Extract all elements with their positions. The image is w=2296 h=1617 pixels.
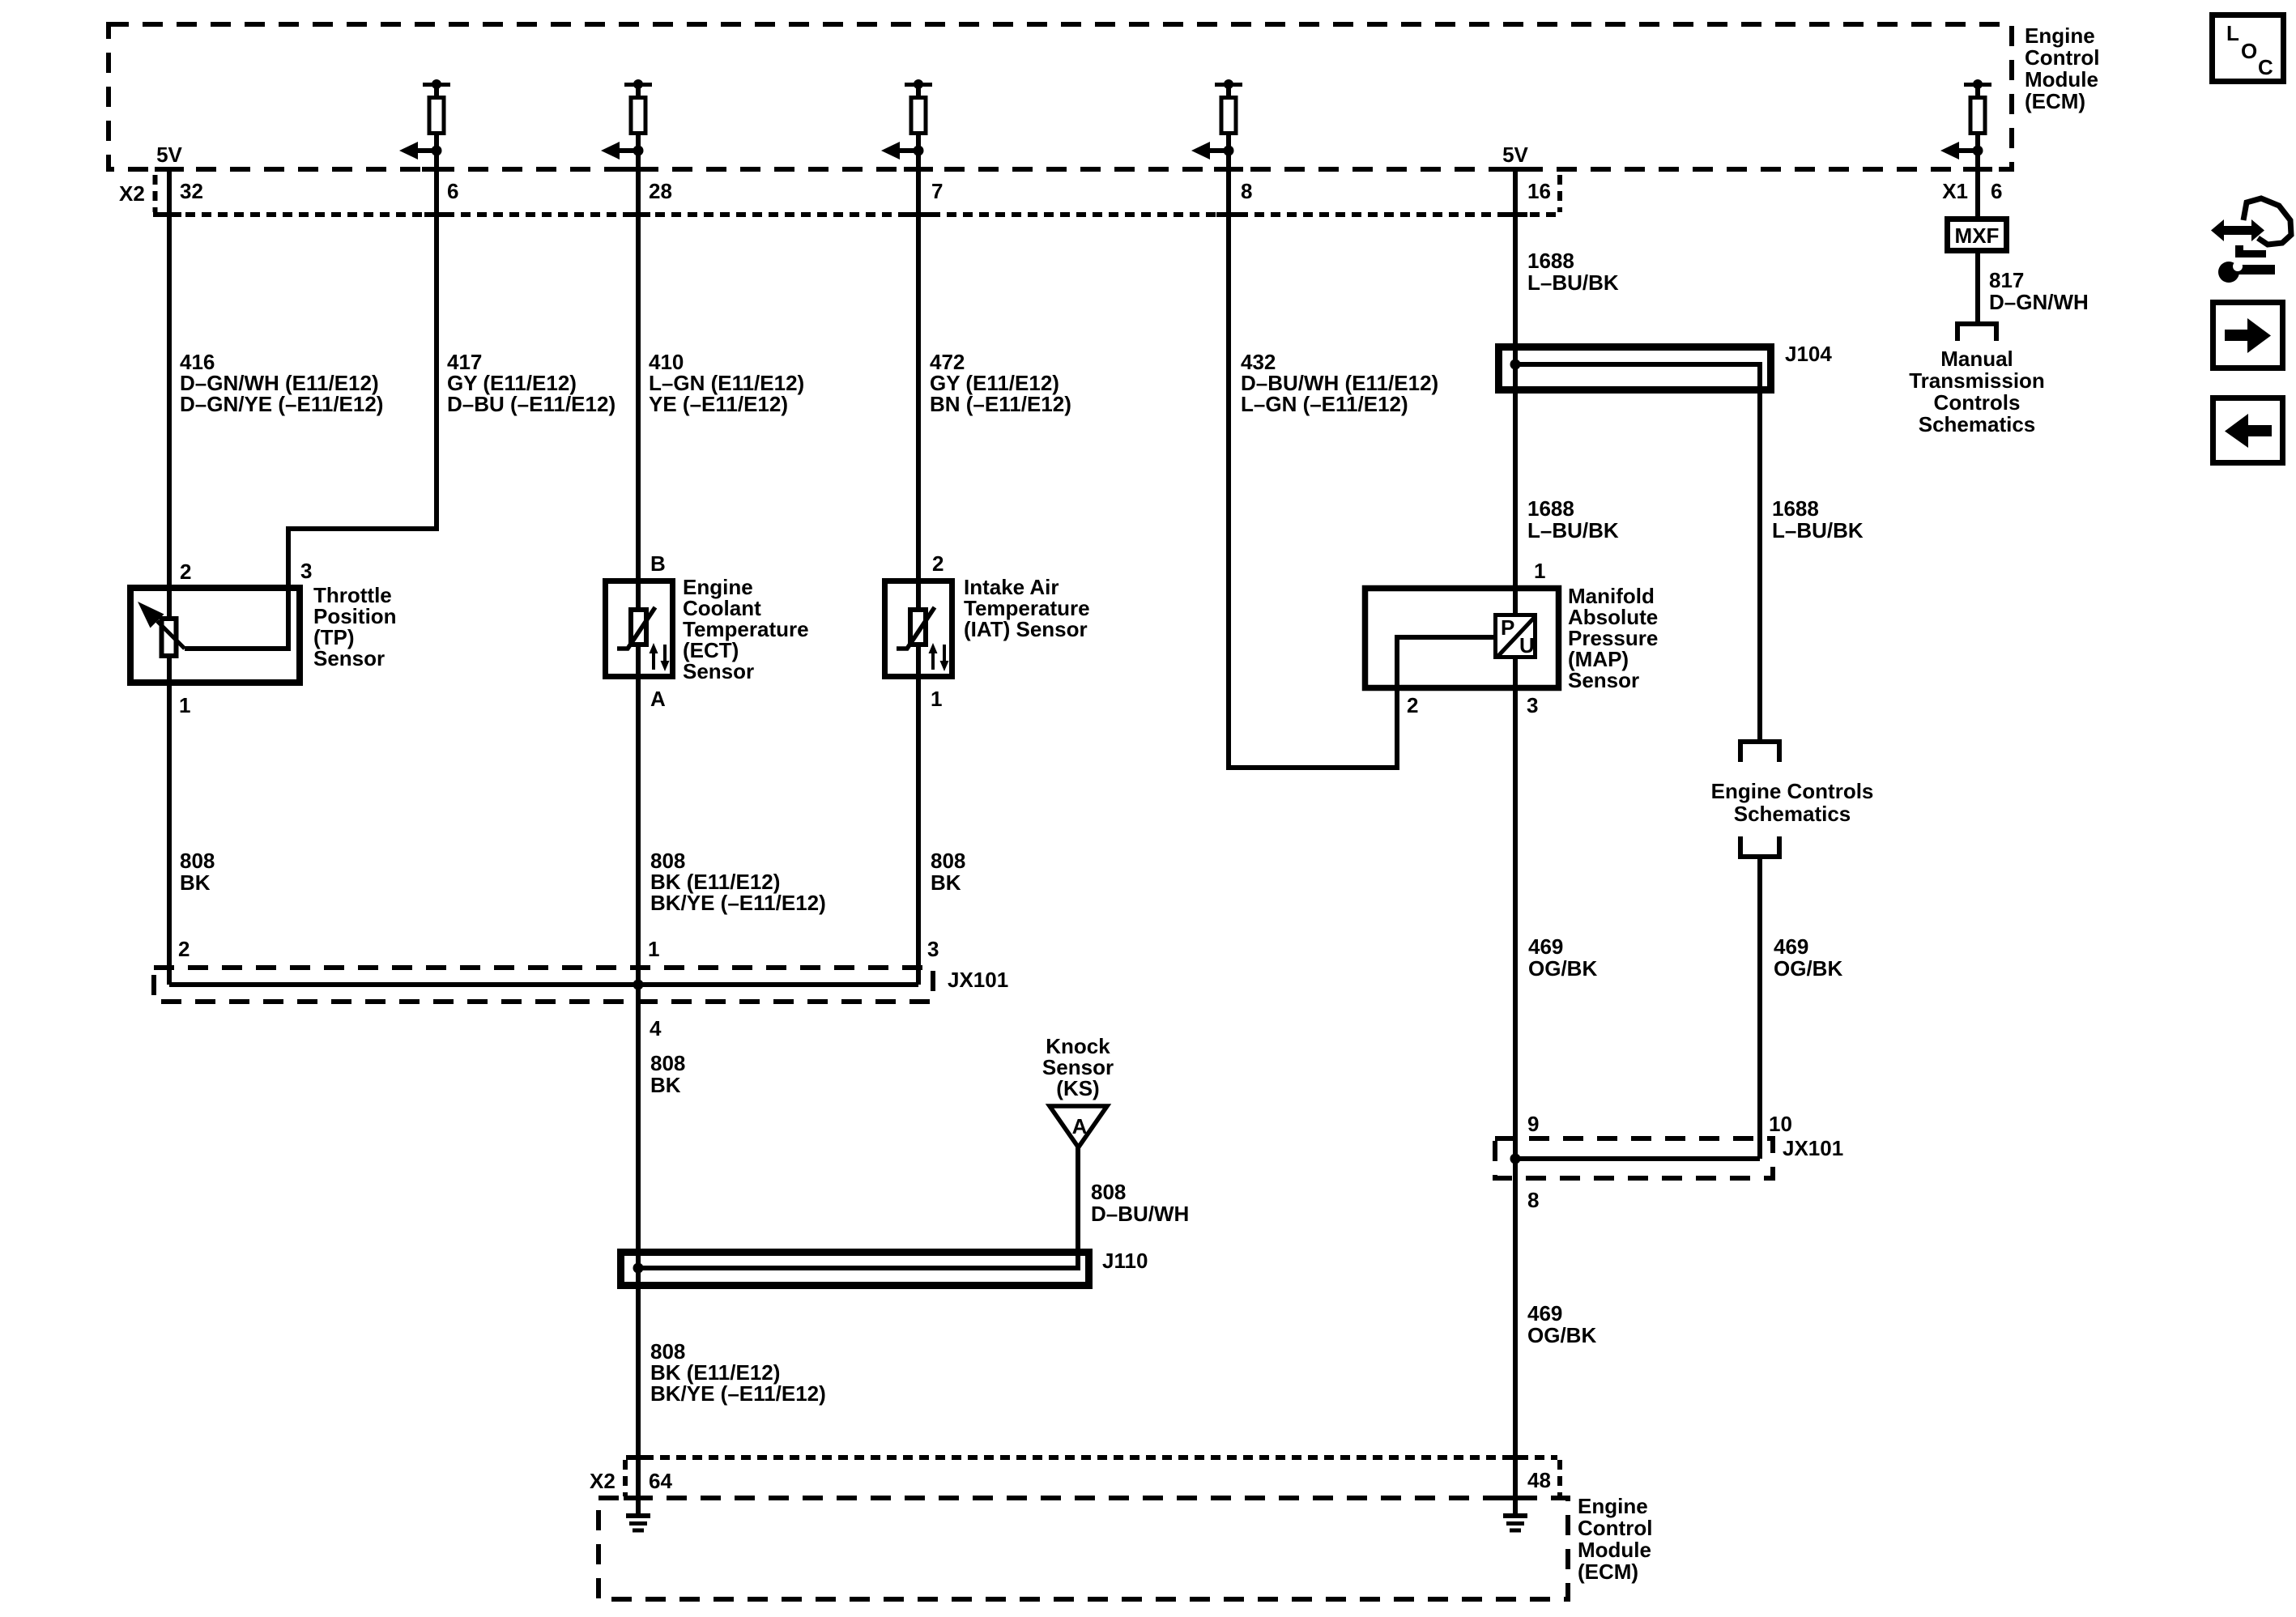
svg-text:D–BU (–E11/E12): D–BU (–E11/E12) (447, 392, 616, 416)
svg-text:X2: X2 (590, 1469, 616, 1493)
wire 808 label (ECT) (650, 849, 826, 915)
5V label pin 16 (1502, 143, 1528, 167)
svg-text:3: 3 (927, 937, 939, 961)
svg-text:8: 8 (1241, 179, 1252, 203)
svg-text:BK: BK (180, 870, 211, 895)
wire 410 label (649, 350, 804, 416)
svg-text:Schematics: Schematics (1919, 412, 2036, 436)
pull-up resistor pin 6 (429, 98, 444, 134)
svg-text:2: 2 (180, 560, 191, 584)
pin 6 label (447, 179, 458, 203)
Manual Transmission Controls Schematics label (1909, 347, 2045, 436)
wire 432 (pin 8 to MAP sensor pin 2) (1229, 135, 1496, 768)
IAT arrows (929, 643, 949, 671)
svg-text:6: 6 (1991, 179, 2002, 203)
wire 469 label (off-page drop) (1774, 934, 1842, 981)
5V supply tap pin 28 (624, 79, 652, 97)
MAP P/U transducer (1496, 615, 1536, 658)
svg-text:1: 1 (1534, 559, 1545, 583)
ECT pin B label (650, 551, 666, 576)
wire 808 label (bottom) (650, 1339, 826, 1406)
JX101 label (right) (1783, 1136, 1843, 1160)
ECT arrows (650, 643, 670, 671)
ECM label (top right) (2025, 23, 2099, 113)
X1 pin 6 label (1991, 179, 2002, 203)
JX101 pin 2 label (178, 937, 190, 961)
pin 8 label (1241, 179, 1252, 203)
wire 808 label (TP) (180, 849, 215, 895)
wire 469 label (MAP pin 3) (1528, 934, 1597, 981)
IAT pin 2 label (932, 551, 944, 576)
svg-text:BN (–E11/E12): BN (–E11/E12) (930, 392, 1071, 416)
svg-text:Sensor: Sensor (1568, 668, 1639, 692)
svg-text:1688: 1688 (1772, 496, 1819, 521)
svg-text:9: 9 (1527, 1112, 1539, 1136)
svg-text:L–BU/BK: L–BU/BK (1527, 270, 1619, 295)
pin 48 label (1527, 1468, 1551, 1492)
TP wiper arrow (138, 602, 185, 649)
junction dot J104 (1510, 360, 1521, 370)
wire 817 (X1 pin 6 through MXF fuse) (1975, 135, 1980, 321)
pin 64 label (649, 1469, 672, 1493)
svg-text:16: 16 (1527, 179, 1551, 203)
wire 1688 label (upper) (1527, 249, 1619, 295)
Engine Coolant Temperature sensor box (606, 581, 673, 677)
Knock Sensor triangle (1050, 1106, 1107, 1147)
svg-text:U: U (1519, 633, 1535, 657)
junction dot pin 28 (633, 146, 644, 156)
wire 469 (off-page to JX101 pin 10) (1757, 857, 1762, 1159)
svg-text:L–BU/BK: L–BU/BK (1772, 518, 1864, 543)
wire 1688 label (left lower) (1527, 496, 1619, 543)
svg-text:Transmission: Transmission (1909, 368, 2045, 393)
junction dot pin 8 (1224, 146, 1234, 156)
svg-text:3: 3 (1527, 693, 1538, 717)
svg-text:817: 817 (1989, 268, 2024, 292)
svg-text:7: 7 (931, 179, 943, 203)
svg-text:4: 4 (650, 1016, 662, 1040)
svg-text:469: 469 (1528, 934, 1563, 959)
svg-text:A: A (1072, 1114, 1088, 1138)
LOC reference box (2213, 15, 2284, 82)
splice pack JX101 dashed box (right) (1495, 1138, 1773, 1178)
JX101 right bus wire (1515, 1156, 1760, 1161)
svg-text:OG/BK: OG/BK (1527, 1323, 1596, 1347)
svg-text:2: 2 (1407, 693, 1418, 717)
svg-text:OG/BK: OG/BK (1774, 956, 1842, 981)
splice J110 box (621, 1253, 1089, 1286)
svg-text:808: 808 (650, 1051, 685, 1075)
svg-text:3: 3 (300, 559, 312, 583)
ground (pin 64) (626, 1516, 650, 1530)
TP sensor name (313, 583, 397, 670)
fuse MXF box (1948, 219, 2007, 251)
ECM box edge ticks at wire crossings (155, 167, 1992, 172)
svg-text:Engine: Engine (2025, 23, 2095, 48)
JX101 pin 4 label (650, 1016, 662, 1040)
JX101 label (left) (948, 968, 1008, 992)
svg-text:1: 1 (931, 687, 942, 711)
ECT sensor name (683, 575, 809, 683)
J110 label (1102, 1249, 1148, 1273)
X1 connector label (1942, 179, 1968, 203)
svg-text:32: 32 (180, 179, 203, 203)
pin 16 label (1527, 179, 1551, 203)
svg-text:X1: X1 (1942, 179, 1968, 203)
TP pin 1 label (179, 693, 190, 717)
5V label pin 32 (156, 143, 182, 167)
pull-up resistor pin 28 (631, 98, 645, 134)
svg-text:10: 10 (1769, 1112, 1792, 1136)
svg-text:1: 1 (179, 693, 190, 717)
wire 410 (pin 28 to ECT sensor, then 808 to JX101) (636, 135, 641, 985)
back arrow icon (2213, 398, 2283, 463)
svg-text:JX101: JX101 (1783, 1136, 1843, 1160)
junction dot J110 (633, 1263, 644, 1274)
wire 417 label (447, 350, 616, 416)
J104 label (1785, 342, 1832, 366)
bottom connector ticks (626, 1455, 1527, 1460)
junction dot JX101 right (1510, 1154, 1521, 1164)
X2 label (bottom) (590, 1469, 616, 1493)
junction dot X1 pin 6 (1973, 146, 1983, 156)
ECM module dashed box (top) (109, 24, 2012, 169)
svg-text:(IAT) Sensor: (IAT) Sensor (964, 617, 1088, 641)
junction dot pin 6 (432, 146, 442, 156)
MAP sensor name (1568, 584, 1658, 692)
svg-text:BK/YE (–E11/E12): BK/YE (–E11/E12) (650, 1381, 826, 1406)
wire 808 (JX101 pin 4 to ECM pin 64) (636, 985, 641, 1516)
MAP pin 3 label (1527, 693, 1538, 717)
service info icon (arrows and wrench) (2211, 198, 2291, 283)
svg-text:BK/YE (–E11/E12): BK/YE (–E11/E12) (650, 891, 826, 915)
ECT pin A label (650, 687, 666, 711)
pin 28 label (649, 179, 672, 203)
svg-text:C: C (2258, 55, 2273, 79)
ECM bottom connector X2 dotted line (625, 1457, 1560, 1496)
IAT thermistor (897, 607, 935, 649)
svg-text:L–BU/BK: L–BU/BK (1527, 518, 1619, 543)
svg-text:2: 2 (932, 551, 944, 576)
pull-up resistor pin 8 (1221, 98, 1236, 134)
wire 808 D-BU/WH label (1091, 1180, 1189, 1226)
JX101 pin 10 label (1769, 1112, 1792, 1136)
svg-text:Module: Module (2025, 67, 2098, 91)
IAT pin 1 label (931, 687, 942, 711)
pull-up resistor pin 7 (911, 98, 926, 134)
ECM connector X2 dotted line (153, 175, 1560, 215)
svg-text:1688: 1688 (1527, 496, 1574, 521)
MAP pin 2 label (1407, 693, 1418, 717)
5V supply tap pin 8 (1215, 79, 1242, 97)
IAT sensor name (964, 575, 1090, 641)
JX101 pin 8 label (1527, 1188, 1539, 1212)
svg-text:Module: Module (1578, 1538, 1651, 1562)
svg-text:6: 6 (447, 179, 458, 203)
svg-text:808: 808 (180, 849, 215, 873)
TP potentiometer resistor (162, 619, 177, 656)
svg-text:X2: X2 (119, 181, 145, 206)
svg-text:(ECM): (ECM) (1578, 1560, 1638, 1584)
svg-text:OG/BK: OG/BK (1528, 956, 1597, 981)
svg-text:(ECM): (ECM) (2025, 89, 2085, 113)
wire inside J104 to right drop (1515, 364, 1760, 739)
svg-text:808: 808 (931, 849, 965, 873)
splice J104 box (1499, 347, 1771, 390)
wire 817 label (1989, 268, 2089, 314)
svg-text:D–BU/WH: D–BU/WH (1091, 1202, 1189, 1226)
JX101 pin 1 label (648, 937, 659, 961)
junction dot JX101 (633, 980, 644, 990)
wire inside J110 (638, 1266, 1080, 1270)
JX101 pin 3 label (927, 937, 939, 961)
svg-text:64: 64 (649, 1469, 672, 1493)
wire 1688 label (right lower) (1772, 496, 1864, 543)
svg-text:2: 2 (178, 937, 190, 961)
wire 469 (JX101 pin 8 to ECM pin 48) (1513, 1159, 1518, 1516)
svg-text:Sensor: Sensor (683, 659, 754, 683)
wire 417 (pin 6 to TP sensor pin 3) (185, 135, 437, 649)
svg-text:Control: Control (2025, 45, 2099, 70)
ground (pin 48) (1503, 1516, 1527, 1530)
svg-text:O: O (2241, 39, 2257, 63)
wire 472 label (930, 350, 1071, 416)
wire 416 (pin 32 to TP sensor) (167, 167, 172, 985)
svg-text:1: 1 (648, 937, 659, 961)
bottom ECM box ticks (624, 1496, 1530, 1500)
wire 1688 / 469 (pin 16 through J104 and MAP to JX101) (1513, 167, 1518, 1159)
svg-text:1688: 1688 (1527, 249, 1574, 273)
svg-text:Schematics: Schematics (1734, 802, 1851, 826)
wire 808 label (pin 4) (650, 1051, 685, 1097)
svg-text:Control: Control (1578, 1516, 1652, 1540)
svg-text:D–GN/YE (–E11/E12): D–GN/YE (–E11/E12) (180, 392, 383, 416)
svg-text:BK: BK (650, 1073, 681, 1097)
svg-text:469: 469 (1527, 1301, 1562, 1326)
svg-text:BK: BK (931, 870, 961, 895)
signal arrow pin 28 (601, 142, 638, 160)
svg-text:(KS): (KS) (1056, 1076, 1099, 1100)
svg-text:48: 48 (1527, 1468, 1551, 1492)
junction dot pin 7 (914, 146, 924, 156)
5V supply tap pin 7 (905, 79, 932, 97)
off-page connector bottom (Engine Controls) (1740, 836, 1779, 857)
wire 469 label (bottom) (1527, 1301, 1596, 1347)
svg-text:Engine Controls: Engine Controls (1711, 779, 1874, 803)
TP pin 3 label (300, 559, 312, 583)
svg-text:28: 28 (649, 179, 672, 203)
signal arrow pin 7 (881, 142, 918, 160)
svg-text:Manual: Manual (1940, 347, 2013, 371)
svg-text:YE (–E11/E12): YE (–E11/E12) (649, 392, 788, 416)
JX101 bus wire (169, 982, 918, 987)
MAP pin 1 label (1534, 559, 1545, 583)
signal arrow pin 6 (399, 142, 437, 160)
ECT thermistor (617, 607, 655, 649)
svg-text:Sensor: Sensor (313, 646, 385, 670)
wire 432 label (1241, 350, 1438, 416)
svg-text:J110: J110 (1102, 1249, 1148, 1273)
5V supply tap X1 pin 6 (1964, 79, 1991, 97)
wire KS pin A to J110 (1076, 1146, 1080, 1270)
svg-text:808: 808 (1091, 1180, 1126, 1204)
forward arrow icon (2213, 303, 2283, 368)
ECM module dashed box (bottom) (598, 1498, 1568, 1599)
signal arrow X1 pin 6 (1940, 142, 1978, 160)
JX101 pin 9 label (1527, 1112, 1539, 1136)
signal arrow pin 8 (1191, 142, 1229, 160)
svg-text:JX101: JX101 (948, 968, 1008, 992)
pin 32 label (180, 179, 203, 203)
ECM label (bottom right) (1578, 1494, 1652, 1584)
TP pin 2 label (180, 560, 191, 584)
svg-text:J104: J104 (1785, 342, 1832, 366)
off-page connector (Manual Transmission) (1957, 324, 1996, 341)
svg-text:Engine: Engine (1578, 1494, 1648, 1518)
Throttle Position sensor box (130, 588, 300, 683)
svg-text:469: 469 (1774, 934, 1808, 959)
wire 808 label (IAT) (931, 849, 965, 895)
svg-text:8: 8 (1527, 1188, 1539, 1212)
svg-text:B: B (650, 551, 666, 576)
Manifold Absolute Pressure sensor box (1365, 589, 1559, 688)
Engine Controls Schematics label (1711, 779, 1874, 826)
svg-text:5V: 5V (156, 143, 182, 167)
connector line ticks at wire crossings (157, 212, 1527, 217)
5V supply tap pin 6 (423, 79, 450, 97)
svg-text:L–GN (–E11/E12): L–GN (–E11/E12) (1241, 392, 1408, 416)
svg-text:L: L (2226, 21, 2239, 45)
svg-text:5V: 5V (1502, 143, 1528, 167)
pin 7 label (931, 179, 943, 203)
svg-text:P: P (1501, 615, 1514, 640)
svg-text:Controls: Controls (1934, 390, 2021, 415)
Knock Sensor name (1042, 1034, 1114, 1100)
svg-text:MXF: MXF (1955, 223, 2000, 248)
splice pack JX101 dashed box (left) (154, 968, 933, 1002)
off-page connector top (Engine Controls) (1740, 742, 1779, 762)
svg-text:D–GN/WH: D–GN/WH (1989, 290, 2089, 314)
X2 connector label (119, 181, 145, 206)
wire 472 (pin 7 to IAT sensor, then 808 to JX101) (916, 135, 921, 985)
pull-up resistor X1 pin 6 (1970, 98, 1985, 134)
wire 416 label (180, 350, 383, 416)
Intake Air Temperature sensor box (885, 581, 952, 677)
svg-text:A: A (650, 687, 666, 711)
